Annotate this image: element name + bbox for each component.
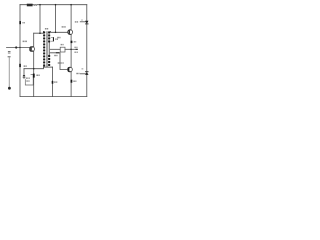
value label above transformer — [45, 28, 48, 30]
value label blob y42 — [74, 41, 77, 42]
value label x57 y37 — [57, 37, 60, 39]
wire stub bottom-right diode — [80, 73, 86, 75]
node dot x71.1 top — [70, 4, 72, 6]
value label below stub end — [74, 52, 78, 53]
value label Q1 — [23, 41, 27, 43]
capacitor blob on left rail y64 — [19, 64, 21, 67]
value label blob y81 — [73, 81, 76, 82]
value label TR2 — [58, 62, 64, 63]
resistor R805 filled box on top rail — [27, 4, 33, 7]
resistor blob on x52.6 y82 — [52, 81, 54, 84]
wire right rail — [86, 5, 88, 97]
fuse blob on left rail y21 — [19, 21, 21, 24]
resistor blob on x71.1 y42 — [71, 41, 73, 43]
dark bar on tap y52.8 — [56, 52, 59, 53]
value label C near left rail capacitor — [24, 65, 27, 67]
node dot x55.5 y32.3 — [55, 32, 57, 34]
value label above resistor box — [61, 44, 64, 45]
value label top right diode — [75, 21, 78, 22]
transistor TR1 — [68, 30, 73, 35]
wire emitter Q1 — [33, 51, 35, 96]
wire drop x40 — [39, 5, 41, 34]
node terminal dot x9 — [8, 87, 11, 90]
transformer T801 primary winding turns — [43, 31, 45, 66]
node dot x40 y33.2 — [39, 32, 41, 34]
transformer core lines — [46, 31, 49, 67]
wire tap y49.3 into resistor box — [50, 48, 60, 50]
diode top right on rail — [85, 21, 88, 24]
wire drop x55.5 — [55, 5, 57, 33]
transformer secondary top winding turns — [48, 31, 50, 42]
box component bottom-left — [25, 74, 33, 85]
node junction dot y47.5 — [15, 46, 17, 48]
value label near emitter blob — [36, 75, 39, 77]
value label R805 — [34, 4, 37, 6]
wire drop x71.1 collector TR1 — [70, 5, 72, 30]
capacitor second plate bar x9 — [8, 56, 11, 58]
value label bottom right diode — [76, 73, 79, 74]
node dot x40 top — [39, 4, 41, 6]
value label TR1 — [62, 26, 66, 27]
value label below tap y52.8 — [54, 55, 57, 56]
label inside box row1 — [26, 78, 28, 79]
wire diode lead x24 — [23, 69, 25, 75]
value label tiny above bottom stub — [82, 68, 84, 69]
diode bottom right on rail — [85, 72, 88, 75]
wire resistor box to junction and stub — [65, 48, 76, 50]
wire collector Q1 — [33, 33, 35, 46]
value label beside blob x55 — [55, 38, 58, 40]
resistor blob on x71.1 y81 — [71, 80, 73, 83]
transformer bottom bar — [43, 66, 53, 68]
wire tap y52.8 down to TR2 base — [50, 53, 67, 70]
resistor blob on emitter line x33.7 — [33, 74, 35, 78]
value label above stub end — [74, 47, 77, 48]
node dot x71.1 y49.3 — [70, 49, 72, 51]
diode blob end of stub y49.3 — [76, 49, 78, 50]
wire left rail — [19, 5, 21, 97]
wire base TR1 y32.3 — [51, 30, 68, 33]
resistor box on tap y49.3 — [60, 47, 65, 52]
capacitor blob beside transformer x53.4 — [51, 37, 54, 41]
wire stub top-right diode — [80, 21, 87, 23]
wire capacitor lower lead x9.2 — [8, 57, 10, 87]
transformer secondary link — [48, 42, 50, 55]
wire horizontal y33.2 — [34, 31, 44, 33]
capacitor C plates x9 — [8, 52, 11, 53]
node dot emitter junction y68.7 — [33, 68, 35, 70]
diode D at x24 — [23, 75, 26, 79]
transistor TR2 — [68, 67, 73, 72]
wire TR2 emitter down — [70, 72, 72, 97]
node dot x55.5 top — [55, 4, 57, 6]
value label tiny above stub — [81, 19, 83, 22]
wire transformer secondary bottom drop x52.6 — [52, 67, 54, 97]
label inside box row2 — [26, 80, 28, 81]
wire top rail — [20, 4, 87, 6]
value label fuse — [22, 22, 25, 23]
wire base Q1 y47.5 — [7, 47, 30, 49]
wire y68.7 to transformer — [24, 67, 44, 69]
transformer secondary bottom winding turns — [48, 55, 50, 66]
wire TR1 emitter down to TR2 collector — [70, 35, 72, 68]
transistor Q1 — [29, 46, 34, 51]
wire bottom rail — [20, 96, 87, 98]
node junction left rail y47.5 — [19, 47, 20, 48]
value label blob x52 y82 — [54, 81, 57, 82]
